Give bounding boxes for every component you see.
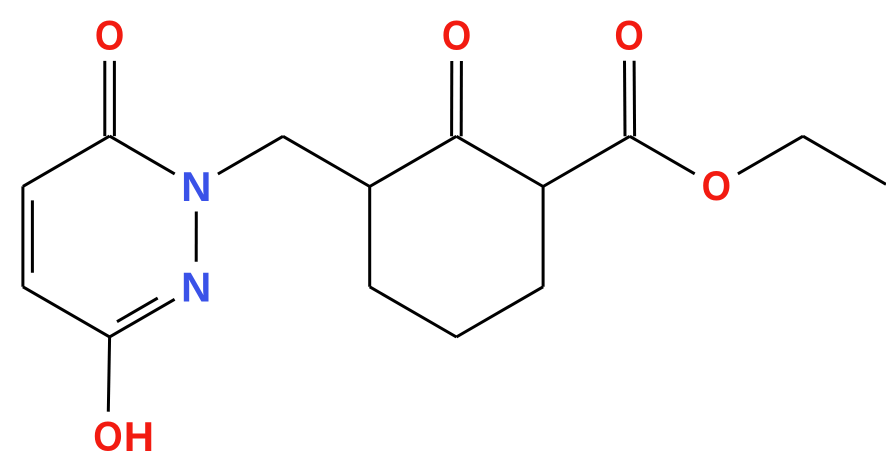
svg-text:N: N — [181, 263, 211, 310]
svg-text:O: O — [442, 13, 471, 59]
wire N2=C3 double bond — [110, 299, 175, 337]
node O5 hydroxyl oxygen — [93, 414, 122, 460]
wire ester C-O bond — [630, 136, 695, 174]
wire O-CH2 bond — [738, 136, 803, 174]
wire C4=C5 double bond — [21, 186, 24, 286]
wire C5-C6 bond — [23, 136, 110, 186]
wire C6-N1 bond — [110, 136, 175, 174]
wire ring C-C bond b — [456, 136, 543, 186]
svg-text:N: N — [181, 163, 211, 210]
wire ring C-C bond a — [370, 136, 457, 186]
svg-text:H: H — [124, 413, 154, 460]
wire C3-C4 bond — [23, 287, 110, 337]
svg-text:O: O — [95, 13, 124, 59]
svg-text:O: O — [93, 414, 122, 460]
wire ketone C=O double bond — [460, 61, 463, 136]
wire CH2-CH3 bond — [803, 136, 886, 184]
wire ring C-C bond f — [368, 187, 371, 287]
wire ring C-C bond c — [542, 187, 545, 287]
svg-text:O: O — [614, 13, 643, 59]
node O1 ring carbonyl oxygen — [95, 13, 124, 59]
wire N1-N2 bond — [195, 212, 198, 262]
node O2 ketone oxygen — [442, 13, 471, 59]
wire ester C=O double bond — [633, 61, 637, 137]
node O4 ester oxygen — [702, 163, 731, 209]
wire N1-CH2 bond — [218, 136, 283, 174]
wire ring C-C bond e — [370, 287, 457, 337]
node O3 ester carbonyl oxygen — [614, 13, 643, 59]
wire ring-ester C-C bond — [543, 136, 630, 186]
wire ring C-C bond d — [456, 287, 543, 337]
svg-text:O: O — [702, 163, 731, 209]
wire C6=O1 carbonyl double bond — [113, 61, 116, 136]
wire C3-OH bond — [108, 337, 109, 412]
wire CH2-ring bond — [283, 136, 370, 186]
